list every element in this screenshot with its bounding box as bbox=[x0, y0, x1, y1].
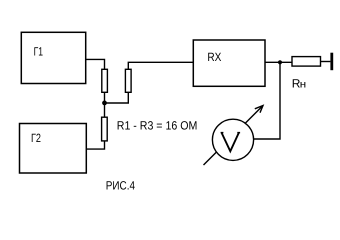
wire Rn to terminal bbox=[321, 61, 331, 63]
svg-text:Г1: Г1 bbox=[34, 45, 44, 59]
svg-text:R1 - R3 = 16 ОМ: R1 - R3 = 16 ОМ bbox=[117, 119, 198, 133]
svg-text:Г2: Г2 bbox=[31, 131, 41, 145]
resistor R2 bbox=[125, 69, 131, 92]
svg-text:РИС.4: РИС.4 bbox=[106, 178, 135, 192]
wire node to R2 bbox=[105, 92, 129, 103]
resistor Rn bbox=[292, 57, 321, 67]
wire node to R3 bbox=[104, 103, 106, 117]
resistor R1 bbox=[102, 69, 108, 92]
wire R1 to node bbox=[104, 92, 106, 103]
voltmeter V glyph bbox=[222, 133, 239, 151]
box RX bbox=[193, 40, 265, 86]
wire node B to voltmeter bbox=[254, 62, 280, 139]
svg-text:н: н bbox=[300, 80, 307, 91]
svg-text:RX: RX bbox=[207, 50, 221, 64]
junction node B bbox=[278, 60, 282, 64]
wire RX to Rn bbox=[265, 61, 292, 63]
resistor R3 bbox=[102, 117, 108, 141]
generator box G2 bbox=[20, 124, 87, 174]
junction node A bbox=[102, 101, 107, 106]
wire R2 to RX bbox=[128, 62, 193, 69]
terminal bar bbox=[330, 53, 333, 70]
wire G1 to R1 bbox=[86, 59, 105, 69]
generator box G1 bbox=[21, 32, 85, 83]
voltmeter V1 circle bbox=[212, 119, 253, 160]
meter needle arrow bbox=[204, 106, 264, 166]
wire R3 to G2 bbox=[86, 141, 104, 149]
